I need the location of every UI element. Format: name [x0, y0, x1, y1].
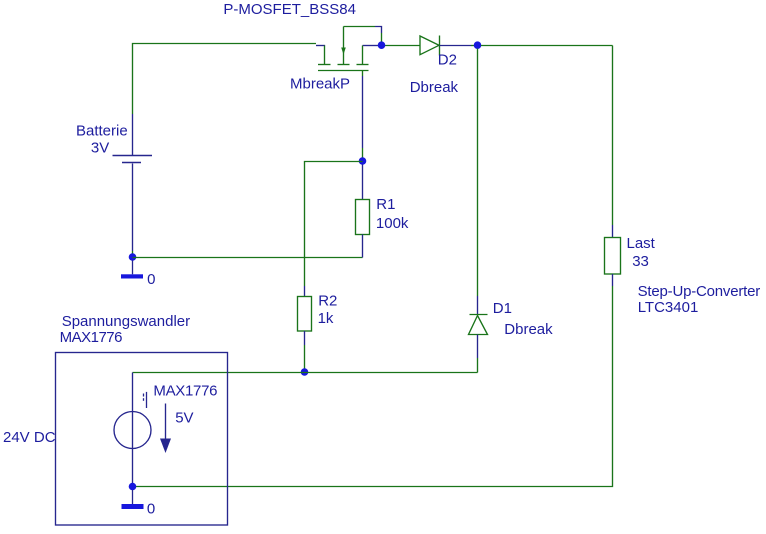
svg-text:Batterie: Batterie: [76, 123, 128, 140]
junction node R2 bottom: [301, 368, 309, 376]
resistor Last: [605, 238, 621, 275]
voltage arrow 5V: [160, 404, 171, 454]
pin top: [362, 165, 364, 200]
junction node battery minus: [129, 253, 137, 261]
bulk vertical with arrow: [343, 27, 345, 65]
svg-text:24V DC: 24V DC: [3, 429, 56, 446]
bulk arrow head: [341, 48, 346, 55]
svg-text:100k: 100k: [376, 215, 409, 232]
resistor R2: [298, 297, 312, 373]
svg-text:Dbreak: Dbreak: [410, 79, 459, 96]
anode wire: [385, 45, 421, 47]
svg-text:D2: D2: [438, 51, 457, 68]
anode pin: [477, 335, 479, 359]
cathode bar: [439, 36, 441, 56]
wire from D2 node to right rail: [481, 45, 613, 47]
top pin: [132, 373, 134, 412]
circle body: [114, 412, 151, 449]
svg-text:LTC3401: LTC3401: [638, 299, 699, 316]
polarity marks: [143, 394, 145, 397]
source V1 MAX1776: [114, 373, 151, 487]
battery B1 Batterie: [113, 114, 153, 256]
wire middle rail y=372: [133, 372, 478, 374]
svg-text:R1: R1: [376, 196, 395, 213]
svg-text:MAX1776: MAX1776: [60, 329, 123, 346]
resistor R1: [356, 165, 370, 258]
svg-text:Spannungswandler: Spannungswandler: [62, 313, 190, 330]
pin Last bottom: [612, 274, 614, 286]
gate bar: [318, 64, 331, 66]
svg-text:1k: 1k: [318, 310, 334, 327]
plus plate: [113, 155, 153, 157]
svg-text:33: 33: [632, 253, 649, 270]
ground 0 (source): [122, 490, 144, 509]
body: [356, 200, 370, 235]
drain pin down: [362, 71, 364, 77]
wire D2 node down to D1: [477, 49, 479, 297]
minus plate: [122, 162, 141, 164]
junction node right of D2: [474, 41, 482, 49]
ground 0 (battery): [121, 261, 143, 279]
pin top: [132, 114, 134, 155]
pin bottom: [362, 235, 364, 258]
internal vertical: [132, 412, 134, 449]
bulk-source tie loop: [344, 26, 376, 28]
junction node top-left of D2: [378, 41, 386, 49]
svg-text:P-MOSFET_BSS84: P-MOSFET_BSS84: [223, 1, 356, 18]
wire blue segment into gate: [316, 45, 325, 47]
svg-text:Last: Last: [627, 235, 656, 252]
svg-text:MAX1776: MAX1776: [153, 383, 217, 400]
diode D2 Dbreak: [385, 36, 475, 56]
box Spannungswandler MAX1776: [56, 353, 228, 526]
wire node A to R2 top: [305, 162, 363, 287]
triangle: [420, 36, 439, 55]
triangle: [469, 316, 488, 335]
bulk bar: [338, 64, 350, 66]
svg-text:MbreakP: MbreakP: [290, 76, 350, 93]
wire battery node to R1 bottom: [133, 257, 363, 259]
svg-text:Dbreak: Dbreak: [504, 321, 553, 338]
diode D1 Dbreak: [469, 315, 488, 373]
pin bottom: [304, 331, 306, 345]
channel line: [318, 70, 369, 72]
wire top rail from battery to gate: [133, 44, 317, 115]
svg-text:R2: R2: [318, 292, 337, 309]
gate pin: [324, 46, 326, 65]
svg-text:3V: 3V: [91, 140, 109, 157]
svg-text:0: 0: [147, 501, 155, 518]
svg-text:Step-Up-Converter: Step-Up-Converter: [638, 283, 761, 300]
junction node A: [359, 157, 367, 165]
svg-text:0: 0: [147, 271, 155, 288]
svg-text:5V: 5V: [175, 409, 193, 426]
junction node source bottom: [129, 483, 137, 491]
source bar: [357, 64, 369, 66]
wire right rail down to Last: [612, 46, 614, 226]
cathode pin: [440, 45, 472, 47]
wire Last bottom to bottom rail: [133, 286, 613, 487]
wire drain to node A: [362, 76, 364, 148]
cathode bar: [470, 314, 488, 316]
bottom pin: [132, 449, 134, 487]
svg-text:D1: D1: [493, 300, 512, 317]
bottom pin: [132, 164, 134, 252]
transistor M1 MbreakP: [318, 27, 382, 77]
source pin to node: [363, 45, 379, 47]
